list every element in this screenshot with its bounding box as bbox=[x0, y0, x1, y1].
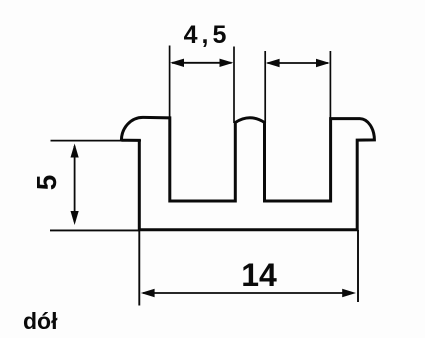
dimension arrow slot 1 width bbox=[170, 59, 233, 67]
dimension 5 top extension line bbox=[51, 140, 142, 142]
label 5 (rotated) bbox=[33, 162, 60, 203]
label dol bbox=[23, 310, 58, 333]
dimension 14 right extension line bbox=[357, 230, 359, 302]
dimension extension line (slot 2 right wall) bbox=[329, 51, 331, 118]
dimension 14 left extension line bbox=[138, 231, 140, 306]
dimension 4,5 extension line left (slot 1 left wall) bbox=[169, 46, 171, 118]
dimension 5 bottom extension line bbox=[50, 229, 139, 231]
label 4,5 bbox=[162, 23, 252, 48]
dimension extension line (divider right wall) bbox=[264, 51, 266, 123]
dimension 14 double arrow bbox=[141, 289, 356, 297]
profile outline bbox=[121, 117, 374, 229]
dimension 5 vertical double arrow bbox=[71, 144, 79, 226]
label 14 bbox=[219, 259, 299, 291]
dimension 4,5 extension line (divider left wall) bbox=[233, 47, 235, 124]
dimension arrow slot 2 width bbox=[266, 59, 330, 67]
